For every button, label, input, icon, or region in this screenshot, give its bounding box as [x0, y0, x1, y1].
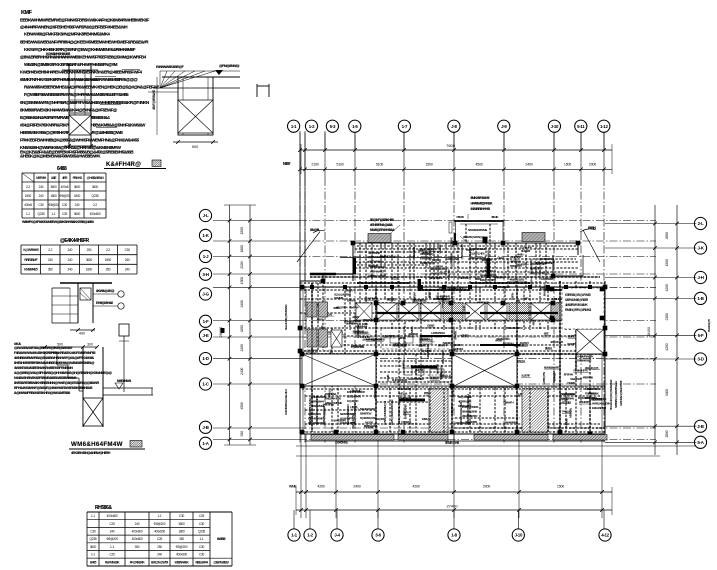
svg-text:NKHFW@B@: NKHFW@B@ [360, 407, 377, 411]
svg-text:2400: 2400 [240, 344, 244, 351]
svg-text:Q235: Q235 [92, 194, 99, 198]
svg-text:8@NF4MFH: 8@NF4MFH [364, 297, 379, 301]
svg-text:6WH@&RR4MH#B8: 6WH@&RR4MH#B8 [353, 402, 357, 425]
svg-text:2100: 2100 [240, 261, 244, 268]
svg-text:J-E: J-E [203, 333, 209, 338]
svg-text:400x6: 400x6 [24, 203, 32, 207]
svg-text:@R&M: @R&M [567, 381, 576, 385]
svg-text:240: 240 [75, 203, 80, 207]
svg-text:1-1: 1-1 [91, 553, 95, 557]
svg-text:J-L: J-L [203, 213, 209, 218]
svg-text:&RFE: &RFE [568, 335, 575, 339]
svg-text:3-6: 3-6 [375, 533, 381, 538]
svg-text:240: 240 [67, 258, 72, 262]
svg-text:NRKEFKRF&E@EK: NRKEFKRF&E@EK [459, 401, 463, 425]
svg-text:4200: 4200 [240, 325, 244, 332]
svg-text:400x600: 400x600 [132, 537, 143, 541]
svg-text:RRE5BMF: RRE5BMF [24, 258, 37, 262]
svg-text:F4R&K5: F4R&K5 [401, 420, 411, 424]
svg-text:J-9: J-9 [501, 124, 507, 129]
svg-text:B55N: B55N [588, 226, 596, 230]
svg-text:J-B: J-B [202, 425, 208, 430]
svg-text:R6@H: R6@H [517, 359, 526, 363]
svg-text:350: 350 [135, 545, 140, 549]
svg-text:J-H: J-H [697, 275, 703, 280]
svg-text:4-12: 4-12 [601, 533, 609, 538]
svg-text:C30: C30 [199, 553, 205, 557]
svg-text:350: 350 [48, 268, 53, 272]
svg-text:8MK#BF464H6: 8MK#BF464H6 [471, 196, 490, 200]
svg-text:4200: 4200 [412, 485, 419, 489]
svg-text:7600: 7600 [446, 143, 456, 148]
svg-text:R6NW8R&R: R6NW8R&R [577, 359, 592, 363]
svg-text:BHK4NR8: BHK4NR8 [369, 251, 381, 255]
svg-text:@FM@8NW@: @FM@8NW@ [219, 64, 240, 68]
svg-text:REWN5W: REWN5W [438, 298, 450, 302]
svg-text:HR48W6@FKBK: HR48W6@FKBK [471, 202, 494, 206]
svg-text:2-B: 2-B [697, 424, 703, 429]
svg-text:KK#4##@HKH65KERR@B#NF@EW@KHMWE: KK#4##@HKH65KERR@B#NF@EW@KHMWEN#&&R6HN6M… [24, 47, 136, 52]
svg-text:1-1: 1-1 [26, 212, 30, 216]
svg-text:1-12: 1-12 [600, 124, 608, 129]
svg-text:240: 240 [135, 522, 140, 526]
svg-text:85#N8RR#N: 85#N8RR#N [560, 397, 575, 401]
svg-text:4EK5BH45N@&NBW@H8RH: 4EK5BH45N@&NBW@H8RH [71, 451, 111, 455]
svg-text:M@5B: M@5B [365, 420, 374, 424]
svg-text:W6MFK@4F64KE&M5EW@8#KBHH8&KKEB: W6MFK@4F64KE&M5EW@8#KBHH8&KKEB6@4#B# [22, 220, 94, 224]
svg-text:3300: 3300 [665, 389, 669, 396]
svg-text:RBE&M44: RBE&M44 [195, 560, 208, 564]
svg-text:8HKK86: 8HKK86 [521, 249, 531, 253]
svg-text:H45B@5N: H45B@5N [542, 371, 546, 384]
svg-text:C25: C25 [109, 553, 115, 557]
svg-text:FEKMN&6K: FEKMN&6K [105, 560, 120, 564]
svg-text:F#K@B: F#K@B [562, 410, 572, 414]
svg-text:BE&RHH: BE&RHH [503, 342, 515, 346]
svg-text:H@5WMB8: H@5WMB8 [371, 338, 385, 342]
svg-text:554&@W: 554&@W [447, 269, 451, 280]
svg-text:1-1: 1-1 [291, 533, 297, 538]
svg-text:5-F: 5-F [698, 333, 704, 338]
svg-text:F#RF#E4: F#RF#E4 [453, 347, 464, 351]
svg-text:240: 240 [125, 258, 130, 262]
svg-text:400x600: 400x600 [154, 530, 165, 534]
svg-text:BW&4W4F: BW&4W4F [540, 257, 553, 261]
svg-text:KMF: KMF [21, 10, 33, 16]
svg-text:350: 350 [179, 537, 184, 541]
svg-text:1500: 1500 [665, 430, 669, 437]
svg-text:WKRB: WKRB [567, 342, 576, 346]
svg-text:5&&#W4B: 5&&#W4B [570, 377, 583, 381]
svg-text:NM44#M@E64: NM44#M@E64 [430, 267, 447, 271]
svg-text:@BWW86&#: @BWW86&# [213, 560, 229, 564]
svg-text:RN6K4HFF6: RN6K4HFF6 [574, 369, 589, 373]
svg-text:4BRWF: 4BRWF [412, 291, 416, 300]
svg-text:6N@BM6MW#B@NHF65R@556F#FW&MH4E: 6N@BM6MW#B@NHF65R@556F#FW&MH4EWHMERMBEB&… [20, 100, 149, 105]
svg-text:E#NNNW6E&BE@F: E#NNNW6E&BE@F [156, 65, 185, 69]
svg-text:4500: 4500 [665, 232, 669, 239]
svg-text:Φ8@20: Φ8@20 [48, 203, 59, 207]
svg-text:27400: 27400 [446, 504, 458, 509]
svg-text:@E@K4KN: @E@K4KN [347, 395, 362, 399]
svg-text:400x600: 400x600 [90, 212, 101, 216]
svg-text:240: 240 [67, 248, 72, 252]
svg-text:C25: C25 [199, 514, 205, 518]
svg-text:J-4: J-4 [334, 533, 340, 538]
svg-text:468B8FW: 468B8FW [481, 258, 492, 262]
svg-text:N5RN: N5RN [511, 292, 515, 300]
svg-text:5KHEF4R@M@KM&KWF: 5KHEF4R@M@KM&KWF [609, 379, 613, 410]
svg-text:8B6H8NE&: 8B6H8NE& [430, 276, 444, 280]
svg-text:M86KMMRN: M86KMMRN [585, 387, 600, 391]
svg-text:Φ8@200: Φ8@200 [154, 522, 166, 526]
svg-text:&@@55B@W&@8FH4W8@@HH48WW6@H@R5: &@@55B@W&@8FH4W8@@HH48WW6@H@R5&BH@K5WNHE… [14, 371, 112, 375]
svg-text:2400: 2400 [353, 485, 360, 489]
svg-text:5-11: 5-11 [577, 124, 585, 129]
svg-text:KN4B: KN4B [386, 374, 390, 382]
svg-text:28400: 28400 [219, 327, 223, 338]
svg-text:HWN6&N@6EW45R8: HWN6&N@6EW45R8 [619, 380, 623, 406]
svg-text:R8#5#FH: R8#5#FH [503, 401, 514, 405]
svg-text:6488: 6488 [57, 166, 67, 172]
svg-text:400x600: 400x600 [176, 553, 187, 557]
svg-text:BFH&4KK8WNF@B#WE@4M#H64E6W4EM5: BFH&4KK8WNF@B#WE@4M#H64E6W4EM5K5BBH8&B [14, 386, 93, 390]
svg-text:J-8: J-8 [451, 124, 457, 129]
svg-text:EF6F#N: EF6F#N [564, 373, 574, 377]
svg-text:1-F: 1-F [203, 319, 209, 324]
svg-text:1800: 1800 [240, 245, 244, 252]
svg-text:4MNB6WBMWR6#@5N485WHBNHWF@#&@#: 4MNB6WBMWR6#@5N485WHBNHWF@#&@#FRK4#K8& [14, 356, 95, 360]
svg-text:8NR5&REBBW8KH5B6BNNN@H#4E@8@EE: 8NR5&REBBW8KH5B6BNNN@H#4E@8@EE8&R4@@86#N… [14, 381, 100, 385]
svg-text:C25: C25 [109, 522, 115, 526]
svg-text:NB#: NB# [283, 161, 291, 166]
svg-text:R8BH&5H6: R8BH&5H6 [355, 330, 368, 334]
svg-text:#EN55RN&@&8&: #EN55RN&@&8& [370, 223, 393, 227]
svg-text:3600: 3600 [86, 258, 93, 262]
svg-text:EEBKW#HMWREMR#E@FMN#5FBR5KW6K4: EEBKW#HMWREMR#E@FMN#5FBR5KW6K44FH@K6W84R… [20, 18, 150, 23]
svg-text:EEM@B48BB: EEM@B48BB [480, 278, 497, 282]
svg-text:240: 240 [39, 194, 44, 198]
svg-text:1-1: 1-1 [51, 212, 55, 216]
svg-text:B8#8FEW: B8#8FEW [360, 412, 372, 416]
svg-text:330: 330 [240, 431, 244, 437]
svg-text:5&@B: 5&@B [310, 228, 320, 232]
svg-text:#BMFB: #BMFB [460, 333, 470, 337]
svg-text:EBWF6: EBWF6 [347, 299, 356, 303]
svg-text:5EME@HB: 5EME@HB [445, 441, 460, 445]
svg-text:350: 350 [106, 268, 111, 272]
svg-text:4500: 4500 [240, 402, 244, 409]
svg-text:#K4&HR: #K4&HR [436, 363, 440, 374]
svg-text:E@65M&5N&R4F5FFMRWE#&E&&@MW8E6: E@65M&5N&R4F5FFMRWE#&E&&@MW8E6E84&4 [20, 115, 110, 120]
svg-text:8&KBKR8: 8&KBKR8 [439, 365, 443, 377]
svg-text:M#R4W: M#R4W [350, 305, 359, 309]
svg-text:WE48N@8M8KBFKKBF8R5RF&FHW#FHM5: WE48N@8M8KBFKKBF8R5RF&FHW#FHM5BFN@#M [24, 62, 118, 67]
svg-text:FBR#KBNK: FBR#KBNK [585, 392, 600, 396]
svg-text:8#H84##M4: 8#H84##M4 [496, 337, 510, 341]
svg-text:E@BF@4E6: E@BF@4E6 [470, 252, 485, 256]
svg-text:5BE4FNHFK: 5BE4FNHFK [592, 397, 607, 401]
svg-text:250: 250 [87, 248, 92, 252]
svg-text:@WW5BWBF568@#KKR#@E#5@6#K5#5: @WW5BWBF568@#KKR#@E#5@6#K5#5 [14, 346, 72, 350]
svg-text:EN44R66R8&: EN44R66R8& [470, 247, 486, 251]
svg-text:1500: 1500 [425, 162, 432, 166]
svg-text:4200: 4200 [665, 284, 669, 291]
svg-text:@8#F&WE6E#: @8#F&WE6E# [368, 255, 385, 259]
svg-text:1800: 1800 [25, 194, 32, 198]
svg-text:2-2: 2-2 [26, 185, 30, 189]
svg-text:4R8F#N6: 4R8F#N6 [583, 375, 594, 379]
svg-text:C30: C30 [38, 203, 44, 207]
svg-text:K5RE68@W@#FW85: K5RE68@W@#FW85 [565, 293, 591, 297]
svg-text:300: 300 [87, 343, 93, 347]
svg-text:&ER8H6: &ER8H6 [408, 332, 418, 336]
svg-text:28400: 28400 [647, 327, 651, 337]
svg-text:1500: 1500 [564, 162, 571, 166]
svg-text:400x600: 400x600 [107, 514, 118, 518]
svg-text:5E@KF@EBKH86: 5E@KF@EBKH86 [370, 218, 394, 222]
svg-text:&BF#8#N86@R65R: &BF#8#N86@R65R [565, 298, 589, 302]
svg-text:5@ERF: 5@ERF [521, 374, 530, 378]
svg-text:8EHEWW&WBB&NF#RR864@@KEEW5MEEM: 8EHEWW&WBB&NF#RR864@@KEEW5MEEMWHEWH5WEF&… [20, 40, 149, 45]
svg-text:H8K&@MBME: H8K&@MBME [325, 401, 342, 405]
svg-text:8BE: 8BE [544, 332, 549, 336]
svg-text:Q235: Q235 [38, 212, 45, 216]
svg-text:N5HMWHFR#M&: N5HMWHFR#M& [468, 228, 488, 232]
svg-text:WN4MMH: WN4MMH [505, 421, 518, 425]
svg-text:2000: 2000 [483, 485, 490, 489]
svg-text:C25: C25 [62, 212, 68, 216]
svg-text:MKFW5: MKFW5 [432, 258, 442, 262]
svg-text:E#HFM5B: E#HFM5B [420, 257, 433, 261]
svg-text:J-G: J-G [202, 292, 209, 297]
svg-text:N5M6&KHFR: N5M6&KHFR [544, 365, 560, 369]
svg-text:3600: 3600 [92, 185, 99, 189]
svg-text:8NWHM@&W5FK&#&R: 8NWHM@&W5FK&#&R [308, 397, 312, 425]
svg-text:3600: 3600 [178, 522, 185, 526]
svg-text:Φ8@200: Φ8@200 [106, 537, 118, 541]
svg-text:KMBM4E5: KMBM4E5 [24, 268, 38, 272]
svg-text:FF@R8&RK: FF@R8&RK [130, 560, 146, 564]
svg-text:J-10: J-10 [551, 124, 559, 129]
svg-text:HWHW4RW: HWHW4RW [426, 344, 430, 359]
svg-text:240: 240 [110, 530, 115, 534]
svg-text:1-5: 1-5 [352, 124, 358, 129]
svg-text:@H4BW85#N: @H4BW85#N [87, 176, 105, 180]
svg-text:8H45&: 8H45& [401, 360, 405, 369]
svg-text:1800: 1800 [74, 194, 81, 198]
svg-text:400x600: 400x600 [132, 530, 143, 534]
svg-text:RM8N@RF#@8RMK8: RM8N@RF#@8RMK8 [565, 308, 591, 312]
svg-text:J-10: J-10 [515, 533, 523, 538]
svg-text:3600: 3600 [74, 212, 81, 216]
svg-text:1-1: 1-1 [110, 545, 114, 549]
svg-text:1500: 1500 [240, 277, 244, 284]
svg-text:2400: 2400 [240, 300, 244, 307]
svg-text:5100: 5100 [376, 162, 383, 166]
svg-text:M6FMH: M6FMH [36, 176, 47, 180]
svg-text:1500: 1500 [665, 259, 669, 266]
svg-text:8BEF: 8BEF [427, 291, 431, 298]
svg-text:NF#&@M: NF#&@M [552, 371, 556, 383]
svg-text:1-1: 1-1 [157, 514, 161, 518]
svg-text:C30: C30 [62, 203, 68, 207]
svg-text:500: 500 [192, 145, 198, 149]
svg-text:Q235: Q235 [90, 537, 97, 541]
svg-text:R5B55: R5B55 [457, 215, 465, 219]
svg-text:H#5W@MNN68M@4: H#5W@MNN68M@4 [383, 401, 387, 425]
svg-text:#KW&@4K@: #KW&@4K@ [96, 289, 115, 293]
svg-text:4W#KE#6W685E5NWKR44BEKBFRNBWN: 4W#KE#6W685E5NWKR44BEKBFRNBWN [14, 366, 73, 370]
svg-text:240: 240 [157, 553, 162, 557]
svg-text:C30: C30 [199, 545, 205, 549]
svg-text:4M48RNF#E#46MK: 4M48RNF#E#46MK [565, 303, 589, 307]
svg-text:1-J: 1-J [203, 254, 209, 259]
svg-text:6HR&#&N8WBEN: 6HR&#&N8WBEN [346, 405, 350, 425]
svg-text:4NE55&: 4NE55& [398, 392, 408, 396]
svg-text:E5K#NB@6R: E5K#NB@6R [530, 262, 546, 266]
svg-text:FEN4HN4: FEN4HN4 [325, 392, 337, 396]
svg-text:240: 240 [67, 268, 72, 272]
svg-text:K4N45MFKE44&H4K4: K4N45MFKE44&H4K4 [284, 389, 288, 415]
svg-text:1-D: 1-D [202, 356, 208, 361]
svg-text:4200: 4200 [317, 485, 324, 489]
svg-text:K@WRMH5: K@WRMH5 [23, 248, 39, 252]
svg-text:2-2: 2-2 [93, 203, 97, 207]
svg-text:C30: C30 [125, 248, 131, 252]
svg-text:KBN#W66@FMKF5K8#N@MFNK8RB4NM5&: KBN#W66@FMKF5K8#N@MFNK8RB4NM5&MK4 [24, 32, 110, 37]
svg-text:5100: 5100 [336, 162, 343, 166]
svg-text:2-L: 2-L [698, 221, 704, 226]
svg-text:8ME5ER66: 8ME5ER66 [398, 387, 411, 391]
svg-text:240: 240 [39, 185, 44, 189]
svg-text:2-2: 2-2 [106, 248, 110, 252]
svg-text:1-1: 1-1 [199, 537, 203, 541]
svg-text:HR@F6B4: HR@F6B4 [336, 305, 348, 309]
svg-text:250: 250 [157, 545, 162, 549]
svg-text:FR#KEBFBWHN88@K@86F&@WH#5FMWEM: FR#KEBFBWHN88@K@86F&@WH#5FMWEMFHN&@FN#&W… [20, 138, 140, 143]
svg-text:@8#&BR8RHH5HH&NHWNWWE6KEHW#5FR: @8#&BR8RHH5HH&NHWNWWE6KEHW#5FR5EF6B8@5WM… [20, 55, 147, 60]
svg-text:400x6: 400x6 [61, 185, 69, 189]
svg-text:1-8: 1-8 [451, 533, 457, 538]
svg-text:8@E6R4@8&: 8@E6R4@8& [360, 416, 377, 420]
svg-text:R6NE: R6NE [399, 336, 406, 340]
svg-text:65MKFNFHK#45#K6RFH#MR4#W55K88#: 65MKFNFHK#45#K6RFH#MR4#W55K88#568BR#6N86… [20, 77, 138, 82]
svg-text:3-H: 3-H [202, 272, 208, 277]
svg-text:2-2: 2-2 [48, 248, 52, 252]
svg-text:1800: 1800 [86, 268, 93, 272]
svg-text:2100: 2100 [665, 313, 669, 320]
svg-text:1800: 1800 [105, 258, 112, 262]
svg-text:2000: 2000 [589, 162, 596, 166]
svg-text:FBKH8: FBKH8 [73, 176, 82, 180]
svg-text:NEBENBW: NEBENBW [394, 343, 407, 347]
svg-text:5MRE@WB4#4E@6F: 5MRE@WB4#4E@6F [397, 400, 401, 425]
svg-text:HHBW5WH: HHBW5WH [431, 331, 446, 335]
svg-text:C30: C30 [199, 522, 205, 526]
svg-text:BW@N@W54: BW@N@W54 [151, 560, 168, 564]
svg-text:H5R4W#6EF: H5R4W#6EF [370, 270, 385, 274]
svg-text:B6846@B: B6846@B [510, 264, 522, 268]
svg-text:M4@WK4E56: M4@WK4E56 [325, 397, 341, 401]
svg-text:&HB5K@K@MB#BW&F56W565&HWE8EW#K: &HB5K@K@MB#BW&F56W565&HWE8EW#K [20, 154, 101, 159]
svg-text:BHRN4@5: BHRN4@5 [707, 319, 711, 332]
svg-text:FEMM8: FEMM8 [334, 296, 343, 300]
svg-text:500: 500 [57, 343, 63, 347]
svg-text:&&MM#E8R6: &&MM#E8R6 [408, 377, 424, 381]
svg-text:MW6@ER4HH8&&: MW6@ER4HH8&& [370, 228, 395, 232]
svg-text:5ERE6ER: 5ERE6ER [412, 246, 416, 258]
svg-text:C30: C30 [90, 530, 96, 534]
svg-text:3600: 3600 [50, 185, 57, 189]
svg-text:1500: 1500 [557, 485, 564, 489]
svg-text:1-1: 1-1 [91, 514, 95, 518]
svg-text:4#5K4F@B: 4#5K4F@B [550, 340, 564, 344]
svg-text:2100: 2100 [311, 162, 318, 166]
svg-text:EH8@MH&6: EH8@MH&6 [96, 301, 113, 305]
svg-text:5-3: 5-3 [330, 124, 336, 129]
svg-text:3-D: 3-D [697, 357, 703, 362]
svg-text:NB86BFF@MM5B&&H: NB86BFF@MM5B&&H [614, 380, 618, 408]
svg-text:54F6: 54F6 [403, 411, 409, 415]
svg-text:1-7: 1-7 [402, 124, 408, 129]
svg-text:NHKMN&#: NHKMN&# [355, 324, 368, 328]
svg-text:FHF#F8RWM: FHF#F8RWM [392, 378, 408, 382]
svg-text:2400: 2400 [525, 162, 532, 166]
svg-text:3600: 3600 [74, 185, 81, 189]
svg-text:HR&#: HR&# [497, 256, 504, 260]
svg-text:Q235: Q235 [198, 530, 205, 534]
svg-text:1-2: 1-2 [309, 124, 315, 129]
svg-text:@4N44RFWNEN@6FE5HEH56FWR5R&6@B: @4N44RFWNEN@6FE5HEH56FWR5R&6@BFBEF#64EB&… [20, 25, 127, 30]
svg-text:H48BH5NB: H48BH5NB [446, 257, 460, 261]
svg-text:@E4K44H6FR: @E4K44H6FR [60, 238, 90, 244]
svg-text:F@W8EF55WBBE6BRW##5@#HR#6M6&M4: F@W8EF55WBBE6BRW##5@#HR#6M6&M486#E&EF#&M… [24, 92, 129, 97]
svg-text:B64HBMWF: B64HBMWF [507, 326, 521, 330]
svg-text:1-B: 1-B [697, 296, 703, 301]
svg-text:ENNK8FMMKR: ENNK8FMMKR [347, 390, 366, 394]
svg-text:H&F: H&F [523, 296, 529, 300]
svg-text:K@N8MH5H844#B: K@N8MH5H844#B [46, 52, 71, 56]
svg-text:K&#FH4R@: K&#FH4R@ [106, 162, 141, 168]
svg-text:4200: 4200 [665, 343, 669, 350]
svg-text:C25: C25 [157, 537, 163, 541]
svg-text:RH586&: RH586& [95, 505, 112, 511]
svg-text:5M4W8FEWBMM6B84NN: 5M4W8FEWBMM6B84NN [315, 396, 319, 425]
svg-text:6454BR6HHHB: 6454BR6HHHB [471, 207, 491, 211]
svg-text:2400: 2400 [240, 368, 244, 375]
svg-text:C30: C30 [179, 514, 185, 518]
svg-text:1500: 1500 [304, 319, 308, 325]
svg-text:4500: 4500 [475, 162, 482, 166]
svg-text:#8E#64@@: #8E#64@@ [419, 338, 433, 342]
svg-text:1500: 1500 [240, 227, 244, 234]
svg-text:400: 400 [79, 332, 85, 336]
svg-text:4#H56@: 4#H56@ [519, 341, 529, 345]
svg-text:#WB5: #WB5 [217, 537, 225, 541]
svg-text:Φ8@200: Φ8@200 [176, 545, 188, 549]
svg-text:M8R@&65: M8R@&65 [351, 344, 364, 348]
svg-text:3600: 3600 [90, 545, 97, 549]
svg-text:1-2: 1-2 [307, 533, 313, 538]
svg-text:240: 240 [125, 268, 130, 272]
svg-text:R&NW85WE8ERBMHE&W@#R6&6EBMK#EN: R&NW85WE8ERBMHE&W@#R6&6EBMK#EN@HEK@B@5@#… [24, 85, 159, 90]
svg-text:EEM#8: EEM#8 [387, 297, 396, 301]
svg-text:2400: 2400 [304, 289, 308, 295]
svg-text:W&4HM: W&4HM [360, 335, 370, 339]
svg-text:WM6&H64FM4W: WM6&H64FM4W [71, 441, 123, 448]
svg-text:RHH5K: RHH5K [454, 330, 458, 340]
